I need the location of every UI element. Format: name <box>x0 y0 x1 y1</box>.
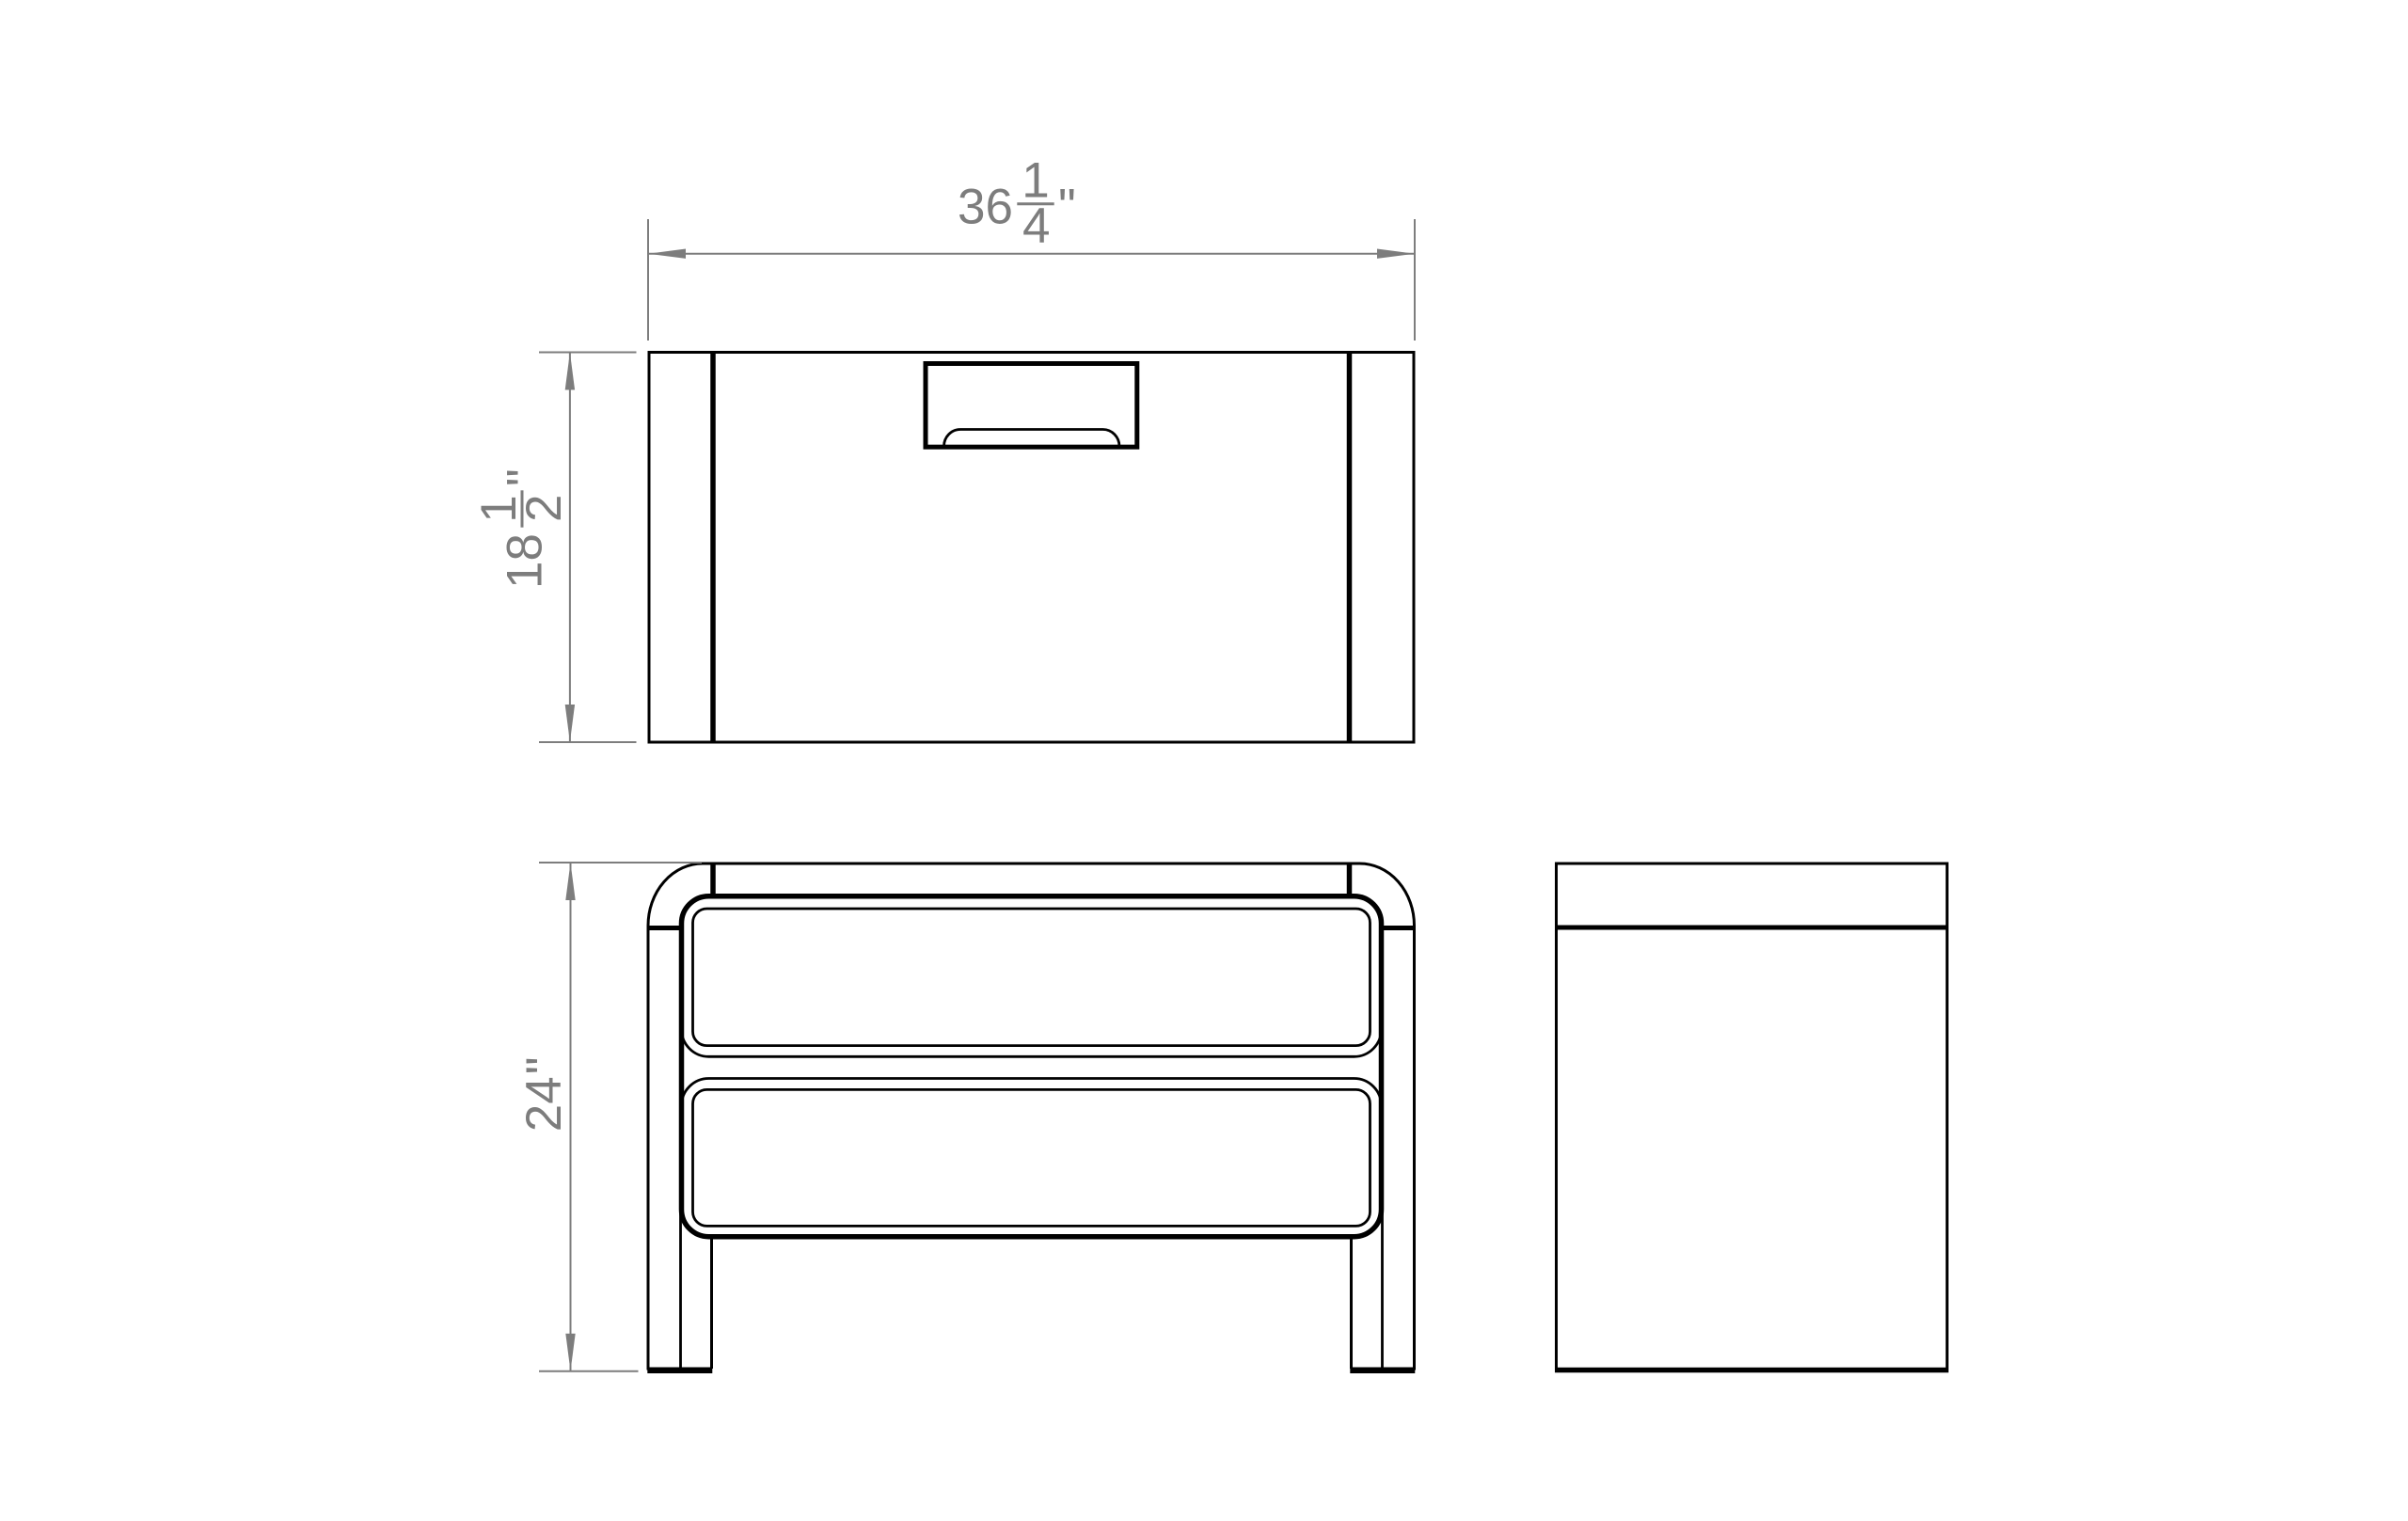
front top band bottom thick line <box>711 894 1353 899</box>
dim 18 1/2 top extension line <box>539 352 637 354</box>
drawer 1 outer outline <box>682 896 1382 1056</box>
top view outline <box>649 353 1414 743</box>
dim 18 1/2 dimension line <box>569 353 571 743</box>
dim 36 1/4 dimension line <box>648 253 1415 255</box>
handle finger recess <box>944 430 1120 447</box>
drawer 2 outer outline <box>682 1079 1382 1237</box>
svg-text:18: 18 <box>498 533 553 589</box>
left leg bottom <box>647 1368 712 1374</box>
dim 24 bottom arrow <box>565 1334 575 1371</box>
dim 18 1/2 bottom arrow <box>565 705 575 742</box>
dim 36 1/4 right extension line <box>1414 219 1416 341</box>
dim 36 1/4 right arrow <box>1377 249 1415 259</box>
svg-text:4: 4 <box>1022 198 1050 254</box>
top view left panel joint line <box>710 354 716 741</box>
dim text 24 <box>516 1056 572 1132</box>
svg-text:": " <box>498 468 553 486</box>
svg-text:": " <box>516 1056 572 1074</box>
dim text 18 1/2 <box>471 468 572 589</box>
right leg bottom <box>1350 1368 1415 1374</box>
dim 24 dimension line <box>570 863 572 1371</box>
svg-text:2: 2 <box>516 494 572 521</box>
dim 24 top extension line <box>539 862 702 863</box>
side view top band line <box>1557 926 1948 930</box>
svg-text:": " <box>1058 179 1076 234</box>
svg-text:36: 36 <box>958 179 1013 234</box>
left corner block joint <box>648 926 679 930</box>
side view bottom thick edge <box>1555 1368 1949 1373</box>
dim 18 1/2 top arrow <box>565 353 575 390</box>
drawer 2 inner outline <box>693 1089 1370 1226</box>
dim 24 bottom extension line <box>539 1370 639 1372</box>
left leg inner edge <box>679 930 682 1369</box>
right corner block joint <box>1384 926 1415 930</box>
right leg face line below opening <box>1350 1238 1353 1369</box>
dim 36 1/4 left extension line <box>647 219 649 341</box>
dim text 36 1/4 <box>958 153 1076 254</box>
handle cutout outer rect <box>926 364 1137 448</box>
front view outline: legs sides, big corner arcs, top edge <box>648 863 1415 1370</box>
dim 24 top arrow <box>565 863 575 900</box>
left leg face line below opening <box>710 1238 713 1369</box>
svg-text:24: 24 <box>516 1076 572 1132</box>
drawer 1 inner outline <box>693 909 1370 1046</box>
front top band right joint <box>1347 863 1353 895</box>
case opening thick rounded rect <box>682 896 1382 1237</box>
top view right panel joint line <box>1347 354 1353 741</box>
dim 36 1/4 left arrow <box>648 249 686 259</box>
front top band left joint <box>710 863 716 895</box>
dim 18 1/2 bottom extension line <box>539 741 637 743</box>
right leg inner edge <box>1381 930 1384 1369</box>
side view outline <box>1557 863 1948 1370</box>
